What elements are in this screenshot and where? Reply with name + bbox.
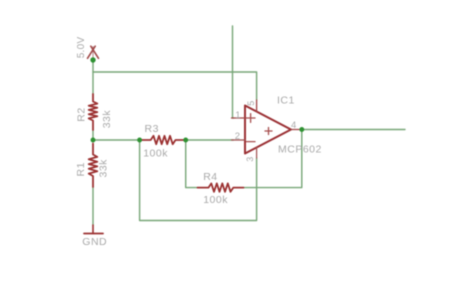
svg-text:IC1: IC1 bbox=[277, 95, 295, 107]
svg-text:100k: 100k bbox=[143, 148, 168, 160]
junction node at 5V supply bbox=[90, 57, 95, 62]
svg-text:2: 2 bbox=[235, 131, 240, 142]
svg-text:R3: R3 bbox=[145, 123, 159, 135]
wire 5V horizontal rail to pin5 drop bbox=[93, 72, 257, 100]
wire R3 right to pin 2 bbox=[186, 139, 234, 141]
junction node C (R3 right / R4 tap) bbox=[183, 138, 188, 143]
op-amp pin 4 output stub bbox=[291, 129, 301, 131]
op-amp center plus mark bbox=[265, 128, 272, 135]
svg-text:100k: 100k bbox=[203, 194, 228, 206]
svg-text:R4: R4 bbox=[203, 171, 217, 183]
svg-text:5.0V: 5.0V bbox=[76, 36, 87, 58]
op-amp pin 5 power stub bbox=[256, 100, 258, 112]
resistor R2 33k (vertical) bbox=[89, 94, 98, 130]
svg-text:R1: R1 bbox=[75, 162, 87, 176]
op-amp pin 3 power stub bbox=[256, 147, 258, 158]
svg-text:GND: GND bbox=[82, 236, 107, 248]
svg-text:4: 4 bbox=[291, 120, 296, 131]
svg-text:33k: 33k bbox=[98, 159, 110, 178]
junction node A (R2/R1 divider) bbox=[91, 138, 96, 143]
wire 5V vertical from supply dot to R2 bbox=[92, 60, 94, 94]
op-amp plus mark at pin 1 input bbox=[246, 114, 255, 123]
op-amp minus mark at pin 2 input bbox=[246, 141, 255, 143]
wire output to the right bbox=[302, 129, 405, 131]
svg-text:5: 5 bbox=[246, 101, 256, 106]
wire R1 bottom to GND bbox=[92, 187, 94, 225]
svg-text:MCP602: MCP602 bbox=[278, 144, 322, 156]
junction node B (R3 left tap) bbox=[137, 138, 142, 143]
op-amp pin 1 stub bbox=[232, 117, 246, 119]
op-amp pin 2 stub bbox=[232, 139, 246, 141]
svg-text:1: 1 bbox=[235, 110, 240, 121]
svg-text:33k: 33k bbox=[101, 110, 113, 129]
resistor R3 100k (horizontal) bbox=[140, 136, 186, 144]
svg-text:3: 3 bbox=[245, 157, 255, 162]
wire input from top to pin 1 bbox=[233, 26, 234, 118]
resistor R4 100k (horizontal) bbox=[198, 183, 244, 191]
junction node output bbox=[299, 127, 304, 132]
resistor R1 33k (vertical) bbox=[89, 144, 98, 188]
wire node C down to R4 left bbox=[186, 140, 198, 188]
ground symbol GND bbox=[84, 225, 103, 234]
svg-text:R2: R2 bbox=[75, 107, 87, 121]
wire node A to R3 left bbox=[93, 139, 140, 141]
supply symbol 5.0V arrow bbox=[88, 46, 99, 59]
wire R2 bottom to node A bbox=[92, 130, 94, 140]
op-amp U1 triangle body bbox=[245, 106, 291, 154]
wire node B down and bottom run to pin 3 bbox=[140, 140, 257, 221]
wire R4 right up to output node bbox=[244, 130, 302, 188]
